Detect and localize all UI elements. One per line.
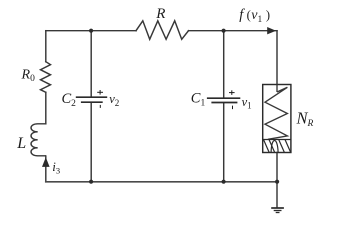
- svg-text:L: L: [16, 135, 26, 152]
- junction node top C2: [89, 29, 93, 33]
- junction node bottom C2: [89, 180, 93, 184]
- svg-text:v2: v2: [109, 92, 119, 108]
- svg-text:NR: NR: [296, 109, 314, 130]
- svg-text:C2: C2: [62, 91, 77, 109]
- wire NR bottom lead: [276, 153, 278, 182]
- junction node top C1: [222, 29, 226, 33]
- wire bottom horizontal: [46, 181, 277, 183]
- resistor R: [136, 21, 189, 40]
- NR hatch lines: [264, 140, 291, 153]
- inductor L: [31, 124, 46, 156]
- wire top-left horizontal (left node to R): [46, 30, 136, 32]
- svg-text:(: (: [247, 8, 251, 22]
- svg-text:): ): [266, 8, 270, 22]
- resistor R0: [41, 62, 51, 93]
- wire left vertical lower (L through arrow to bottom wire): [45, 156, 47, 182]
- svg-text:R0: R0: [21, 68, 36, 85]
- wire C2 branch upper: [90, 31, 92, 97]
- ground: [271, 208, 284, 213]
- capacitor C2 plates: [76, 97, 107, 102]
- wire C1 branch upper: [223, 31, 225, 98]
- capacitor C1 plates: [207, 98, 240, 102]
- wire top-right horizontal (R to right corner): [189, 30, 278, 32]
- svg-text:R: R: [155, 6, 165, 22]
- svg-text:i3: i3: [52, 159, 60, 175]
- svg-text:C1: C1: [191, 90, 206, 108]
- NR top lead inside box: [276, 85, 278, 93]
- svg-text:f: f: [239, 7, 245, 23]
- wire left vertical middle (R0 to L): [45, 92, 47, 124]
- wire C1 branch lower: [223, 103, 225, 181]
- capacitor C2 polarity marks: [97, 90, 103, 108]
- svg-text:v1: v1: [251, 8, 262, 25]
- junction node bottom C1: [222, 180, 226, 184]
- nonlinear resistor NR box: [263, 85, 291, 153]
- NR zigzag: [265, 87, 287, 139]
- svg-text:v1: v1: [242, 95, 252, 111]
- wire left vertical upper (top corner to R0): [45, 31, 47, 62]
- wire C2 branch lower: [90, 103, 92, 182]
- capacitor C1 polarity marks: [229, 90, 235, 109]
- NR hatch strip top line: [263, 139, 291, 141]
- wire right vertical (top corner to NR box): [276, 31, 278, 85]
- arrow i3 (up) on left branch: [42, 157, 50, 167]
- wire ground stub: [276, 182, 278, 208]
- junction node bottom right: [275, 180, 279, 184]
- arrowhead f(v1) (right) on top wire: [267, 27, 276, 34]
